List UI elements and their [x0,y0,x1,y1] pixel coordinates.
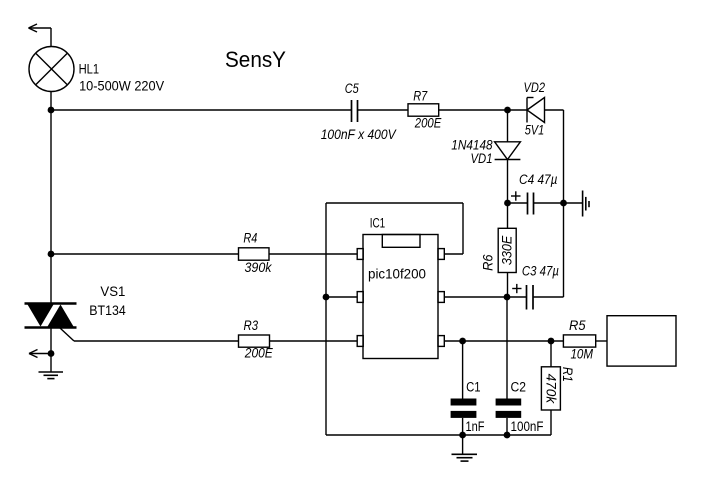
wire R1 top [550,341,552,367]
ground bottom center [452,435,478,461]
svg-text:470k: 470k [544,374,559,405]
label R7 [413,89,427,104]
junction C4 left node [504,200,511,207]
triac VS1 [25,304,77,342]
value label R6 330E [500,235,515,265]
junction left middle pin node [323,294,330,301]
diode VD1 [495,142,521,160]
svg-text:1nF: 1nF [466,419,485,434]
svg-text:100nF: 100nF [511,419,544,434]
junction VD1 top node [504,107,511,114]
value label VS1 BT134 [89,303,126,318]
wire VD2 to right corner [545,109,564,111]
wire arrow to lamp [50,28,52,47]
capacitor C5 [352,100,358,122]
wire loop left vertical [325,203,327,435]
junction C1 branch [459,338,466,345]
value label R3 200E [244,346,274,361]
pin IC1 left top [357,249,363,260]
resistor R4 [239,248,270,260]
label HL1 [79,62,100,77]
pin IC1 left middle [357,292,363,303]
label C1 [466,380,481,395]
svg-text:200E: 200E [244,346,274,361]
svg-text:10M: 10M [571,347,594,362]
wire VD1 to C4 node [507,160,509,204]
svg-text:VD2: VD2 [524,80,546,95]
value label C1 1nF [466,419,485,434]
wire loop right down [462,203,464,254]
value label IC1 pic10f200 [368,265,426,281]
value label C2 100nF [511,419,544,434]
resistor R3 [239,335,270,347]
label C3 47u [522,264,559,279]
svg-text:10-500W 220V: 10-500W 220V [79,78,164,93]
wire lamp to mains node [50,92,52,111]
svg-text:330E: 330E [500,235,515,265]
wire C1 top [462,341,464,399]
pin IC1 right top [438,249,444,260]
svg-text:C1: C1 [466,380,481,395]
svg-text:R3: R3 [244,318,259,333]
resistor R1 [541,367,560,410]
label R1 [560,367,575,382]
wire right vertical rail [563,110,565,297]
neutral arrow [29,350,51,358]
pin IC1 left bottom [357,336,363,347]
capacitor C4 [508,193,564,215]
svg-text:C5: C5 [345,81,359,96]
junction R4 branch [48,251,55,258]
wire C2 bottom [506,418,508,435]
value label R1 470k [544,374,559,405]
wire R5 to sensor box [596,340,607,342]
wire R1 bottom [550,410,552,435]
wire node to VD1 [507,110,509,142]
resistor R7 [408,104,439,116]
svg-text:VS1: VS1 [100,284,125,299]
capacitor C2 [496,399,522,418]
label R3 [244,318,259,333]
capacitor C1 [451,399,477,418]
resistor R5 [563,335,595,347]
label R6 [481,254,496,271]
wire to left middle pin [326,296,357,298]
ground right of C4 [564,191,590,217]
op-amp IC1 body [363,235,438,359]
plus sign C3 [512,284,521,293]
wire C5 to R7 [358,109,409,111]
wire right middle pin to GP0 [444,296,507,298]
svg-text:R4: R4 [243,231,257,246]
svg-text:IC1: IC1 [370,215,386,230]
junction GP0 node [504,294,511,301]
sensor box [607,316,676,366]
wire triac to neutral node [50,328,52,354]
value label VD2 5V1 [525,123,545,138]
wire R6 to GP0 node [507,273,509,298]
wire top rail to C5 [51,109,352,111]
wire to R4 [51,253,239,255]
svg-text:R6: R6 [481,254,496,271]
label R5 [569,318,586,333]
plus sign C4 [511,191,521,200]
wire C4 node to R6 [507,203,509,228]
svg-text:HL1: HL1 [79,62,100,77]
wire C1 bottom [462,418,464,435]
resistor R6 [498,228,516,272]
junction R1 branch [548,338,555,345]
title SensY [225,47,286,72]
svg-text:SensY: SensY [225,47,286,72]
ground below triac [39,354,64,379]
svg-text:200E: 200E [414,116,442,131]
svg-text:C4 47µ: C4 47µ [519,172,558,187]
junction neutral node [48,350,55,357]
label VD2 [524,80,546,95]
svg-text:5V1: 5V1 [525,123,545,138]
svg-text:390k: 390k [245,260,273,275]
label VS1 [100,284,125,299]
wire left vertical rail lamp to triac [50,110,52,304]
label VD1 [471,151,493,166]
wire triac gate to R3 [74,340,239,342]
junction C2 ground node [504,432,511,439]
value label VD1 1N4148 [451,138,493,153]
value label C5 100nF x 400V [321,127,398,142]
wire ground bottom rail [326,434,551,436]
wire R7 to VD2 [439,109,527,111]
label C2 [511,380,527,395]
label IC1 [370,215,386,230]
pin IC1 right middle [438,292,444,303]
wire feedback loop top [326,202,463,204]
value label R7 200E [414,116,442,131]
pin IC1 right bottom [438,336,444,347]
svg-text:R1: R1 [560,367,575,382]
value label R5 10M [571,347,594,362]
svg-text:VD1: VD1 [471,151,493,166]
svg-text:pic10f200: pic10f200 [368,265,426,281]
value label HL1 10-500W 220V [79,78,164,93]
svg-text:100nF x 400V: 100nF x 400V [321,127,398,142]
label R4 [243,231,257,246]
svg-text:C3 47µ: C3 47µ [522,264,559,279]
lamp HL1 [29,47,74,92]
junction C4 right node [560,200,567,207]
zener diode VD2 [527,98,545,123]
value label R4 390k [245,260,273,275]
junction C1 ground node [459,432,466,439]
junction mains node [48,107,55,114]
capacitor C3 [507,285,564,310]
wire R4 to IC1 pin [269,253,357,255]
label C4 47u [519,172,558,187]
wire right bottom pin row [444,340,563,342]
label C5 [345,81,359,96]
wire loop to right top pin [444,253,463,255]
svg-text:BT134: BT134 [89,303,126,318]
svg-text:C2: C2 [511,380,527,395]
wire R3 to IC1 pin [270,340,358,342]
svg-text:R7: R7 [413,89,427,104]
wire C2 vertical [506,297,508,399]
phase arrow top-left [29,24,52,32]
svg-text:R5: R5 [569,318,586,333]
